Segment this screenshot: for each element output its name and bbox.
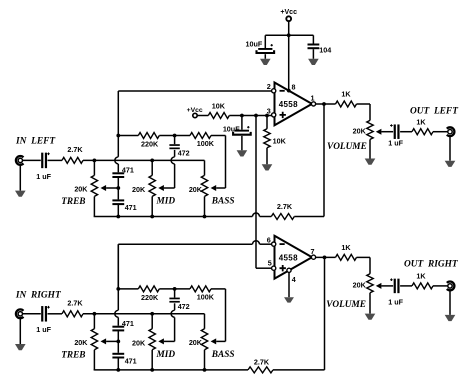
svg-text:20K: 20K xyxy=(353,127,367,136)
junction feedback-220K R xyxy=(116,287,120,291)
svg-text:10K: 10K xyxy=(273,137,287,146)
svg-text:OUT LEFT: OUT LEFT xyxy=(410,107,459,117)
ground at 104 xyxy=(308,59,319,65)
svg-text:20K: 20K xyxy=(74,338,88,347)
op-amp U1A output pin circle xyxy=(311,102,315,106)
junction treble wiper - feedback caps R xyxy=(116,340,120,344)
svg-text:2.7K: 2.7K xyxy=(254,357,270,366)
connector J-IN-L (RCA input jack) xyxy=(16,156,24,165)
resistor 2.7K input R xyxy=(62,311,83,317)
capacitor 471 upper R xyxy=(112,326,124,328)
svg-text:2.7K: 2.7K xyxy=(67,145,83,154)
wire 2.7K to riser L xyxy=(294,216,324,218)
svg-text:20K: 20K xyxy=(132,185,146,194)
potentiometer 20K MID R xyxy=(151,314,153,329)
capacitor 472 R xyxy=(174,289,176,298)
junction pin 8 xyxy=(287,89,291,93)
svg-text:TREB: TREB xyxy=(61,197,85,207)
wire 1K to volume pot L xyxy=(357,103,371,105)
svg-text:1K: 1K xyxy=(341,90,351,99)
op-amp U1A plus sign xyxy=(280,112,286,118)
junction input-treble L xyxy=(93,159,97,163)
svg-text:100K: 100K xyxy=(197,293,215,302)
svg-text:472: 472 xyxy=(178,302,190,311)
mid wiper arrow R xyxy=(158,338,164,344)
wire 472 to mid wiper, hop over input wire R xyxy=(174,303,176,310)
svg-text:104: 104 xyxy=(319,46,331,55)
potentiometer 20K TREB L xyxy=(93,160,95,175)
svg-text:471: 471 xyxy=(122,166,134,175)
terminal +Vcc bias xyxy=(193,113,197,117)
capacitor 104 supply xyxy=(312,35,314,43)
ground at output jack R xyxy=(445,315,456,321)
junction mid bottom R xyxy=(150,368,154,372)
wire pin6 to feedback network left (with hop over bias line) xyxy=(118,243,252,245)
svg-text:1 uF: 1 uF xyxy=(388,139,403,148)
op-amp U1B minus sign xyxy=(280,243,285,245)
wire 1K to output jack L xyxy=(433,131,448,133)
corner pin6 wire down to 220K row right channel xyxy=(117,244,119,289)
op-amp U1B 4558 triangle xyxy=(275,236,313,279)
svg-text:20K: 20K xyxy=(189,185,203,194)
svg-text:8: 8 xyxy=(292,82,296,91)
svg-text:VOLUME: VOLUME xyxy=(326,300,366,310)
ground at volume pot L xyxy=(365,159,376,165)
svg-text:220K: 220K xyxy=(141,293,159,302)
junction input-mid R xyxy=(150,312,154,316)
junction output-feedback riser L xyxy=(322,102,326,106)
junction bass bottom L xyxy=(203,215,207,219)
wire +Vcc down to pin 8 xyxy=(288,21,290,90)
svg-text:2.7K: 2.7K xyxy=(67,298,83,307)
wire 220K to 472 node L xyxy=(159,135,190,137)
svg-text:10K: 10K xyxy=(212,102,226,111)
Vcc decoupling rail xyxy=(265,34,313,36)
wire 1K to volume pot R xyxy=(357,256,371,258)
wire op-amp output R xyxy=(316,256,336,258)
treble wiper arrow R xyxy=(101,338,107,344)
svg-text:5: 5 xyxy=(268,259,272,268)
capacitor 10uF bias xyxy=(241,116,243,130)
wire feedback to 471 cap L xyxy=(117,164,119,172)
bias line down to pin 5 xyxy=(255,116,257,269)
svg-text:471: 471 xyxy=(122,319,134,328)
bass wiper feed from 100K L xyxy=(225,136,227,189)
wire feedback to 471 cap R xyxy=(117,317,119,325)
wire coupling cap R to 2.7K xyxy=(48,313,63,315)
connector J-OUT-L (RCA output jack) xyxy=(447,127,455,136)
wire 10K bias to pin 3 xyxy=(229,115,271,117)
svg-text:1K: 1K xyxy=(341,243,351,252)
junction treble wiper - feedback caps L xyxy=(116,186,120,190)
capacitor 1 uF output L xyxy=(394,124,396,139)
capacitor 471 upper L xyxy=(112,172,124,174)
ground at output jack L xyxy=(445,161,456,167)
resistor 10K bias xyxy=(208,113,229,119)
wire 220K to 472 node R xyxy=(159,288,190,290)
svg-text:4558: 4558 xyxy=(279,253,298,262)
wire input node L (treble top to mid top to bass top) xyxy=(83,159,205,161)
resistor 1K output jack R xyxy=(412,283,433,289)
svg-text:4558: 4558 xyxy=(279,100,298,109)
wire 471 lower to bottom wire L xyxy=(117,205,119,217)
feedback vertical line upper R xyxy=(117,289,119,310)
svg-text:20K: 20K xyxy=(132,338,146,347)
svg-text:20K: 20K xyxy=(74,185,88,194)
svg-text:10uF: 10uF xyxy=(223,124,240,133)
junction input-treble R xyxy=(93,312,97,316)
bass wiper arrow L xyxy=(211,185,217,191)
feedback wire from op-amp inverting input L xyxy=(117,91,119,136)
wire 10uF bias to ground xyxy=(241,136,243,150)
junction feedback caps - bottom wire L xyxy=(116,215,120,219)
op-amp U1A non-inverting pin circle xyxy=(272,113,276,117)
wire 100K to bass feed corner R xyxy=(211,288,226,290)
treble wiper arrow L xyxy=(101,185,107,191)
terminal +Vcc supply xyxy=(286,16,291,21)
junction bias - 10uF xyxy=(240,114,244,118)
wire hop to 2.7K feedback L xyxy=(260,216,272,218)
op-amp U1B inverting input pin circle xyxy=(272,242,276,246)
wire pin 4 to ground xyxy=(288,272,290,297)
resistor 10K bias to ground xyxy=(266,116,268,129)
op-amp U1B non-inverting pin circle xyxy=(272,266,276,270)
ground at 10uF bias xyxy=(237,150,248,156)
wire input jack L ground lead xyxy=(19,165,21,191)
capacitor 472 L xyxy=(174,136,176,145)
svg-text:20K: 20K xyxy=(189,338,203,347)
op-amp U1B pin 4 circle xyxy=(287,268,291,272)
wire hop over input wire L xyxy=(115,157,118,164)
svg-text:+Vcc: +Vcc xyxy=(187,107,203,114)
feedback riser R xyxy=(324,257,326,370)
svg-text:1 uF: 1 uF xyxy=(388,298,403,307)
wire coupling cap L to 2.7K xyxy=(48,159,63,161)
wire pin2 to feedback network left xyxy=(118,90,271,92)
potentiometer 20K TREB R xyxy=(93,314,95,329)
resistor 1K output R xyxy=(336,254,357,260)
feedback riser L xyxy=(323,104,325,217)
wire hop over bias line L xyxy=(252,213,259,216)
resistor 100K L xyxy=(190,133,211,139)
svg-text:471: 471 xyxy=(125,203,137,212)
junction bias - bias line down xyxy=(254,114,258,118)
svg-text:+Vcc: +Vcc xyxy=(280,9,297,16)
ground at pin 4 xyxy=(284,297,294,302)
resistor 1K output jack L xyxy=(412,129,433,135)
resistor 220K R xyxy=(138,286,159,292)
ground at 10uF supply xyxy=(260,59,271,65)
svg-text:1K: 1K xyxy=(416,117,426,126)
junction bass bottom R xyxy=(203,368,207,372)
junction bias - 10K to ground xyxy=(265,114,269,118)
volume wiper arrow R xyxy=(376,283,382,289)
svg-text:1 uF: 1 uF xyxy=(36,325,51,334)
mid wiper arrow L xyxy=(158,185,164,191)
capacitor 1 uF input coupling L xyxy=(41,153,43,169)
capacitor 1 uF output R xyxy=(394,279,396,294)
resistor 100K R xyxy=(190,286,211,292)
svg-text:1 uF: 1 uF xyxy=(36,172,51,181)
junction input-mid L xyxy=(150,159,154,163)
junction feedback caps - bottom wire R xyxy=(116,368,120,372)
capacitor 10uF supply xyxy=(264,35,266,48)
wire 10uF supply to ground xyxy=(264,54,266,59)
svg-text:6: 6 xyxy=(267,235,271,244)
wire output cap to 1K L xyxy=(400,131,412,133)
potentiometer 20K MID L xyxy=(151,160,153,175)
wire hop over input wire R xyxy=(115,310,118,317)
wire output jack ground R xyxy=(449,290,451,315)
wire +Vcc to 10K bias xyxy=(197,115,208,117)
potentiometer 20K BASS R xyxy=(204,314,206,329)
svg-text:BASS: BASS xyxy=(211,350,235,360)
bass wiper feed from 100K R xyxy=(225,289,227,342)
volume wiper arrow L xyxy=(376,129,382,135)
junction mid bottom L xyxy=(150,215,154,219)
wire 1K to output jack R xyxy=(433,285,448,287)
svg-text:7: 7 xyxy=(311,247,315,256)
potentiometer 20K VOLUME L xyxy=(369,104,371,120)
junction Vcc rail xyxy=(287,33,291,37)
op-amp U1B output pin circle xyxy=(311,255,315,259)
resistor 2.7K feedback L xyxy=(271,214,294,220)
wire 100K to bass feed corner L xyxy=(211,135,226,137)
svg-text:MID: MID xyxy=(156,350,176,360)
resistor 2.7K feedback R xyxy=(248,367,273,373)
wire output jack ground L xyxy=(449,136,451,161)
junction output-feedback riser R xyxy=(323,256,327,260)
svg-text:10uF: 10uF xyxy=(246,39,263,48)
ground at 10K vertical xyxy=(262,164,273,170)
capacitor 1 uF input coupling R xyxy=(41,306,43,322)
op-amp U1A 4558 triangle xyxy=(275,83,313,126)
wire 472 to mid wiper, hop over input wire L xyxy=(174,150,176,157)
op-amp U1A inverting input pin circle xyxy=(272,89,276,93)
feedback vertical line upper L xyxy=(117,136,119,157)
ground at input jack R xyxy=(15,344,26,350)
connector J-IN-R (RCA input jack) xyxy=(16,309,24,318)
svg-text:1: 1 xyxy=(311,94,315,103)
bass wiper arrow R xyxy=(211,338,217,344)
svg-text:MID: MID xyxy=(156,197,176,207)
wire 2.7K to riser R xyxy=(273,369,325,371)
resistor 1K output L xyxy=(336,101,357,107)
wire 10K vertical to ground xyxy=(266,148,268,165)
wire input jack R ground lead xyxy=(19,318,21,344)
svg-text:IN RIGHT: IN RIGHT xyxy=(15,291,62,301)
wire 471 lower to bottom wire R xyxy=(117,358,119,370)
svg-text:4: 4 xyxy=(292,275,296,284)
capacitor 471 lower L xyxy=(112,199,124,201)
wire input jack L to coupling cap xyxy=(23,159,41,161)
ground at volume pot R xyxy=(365,314,376,320)
wire input node R (treble top to mid top to bass top) xyxy=(83,313,205,315)
svg-text:472: 472 xyxy=(178,149,190,158)
junction feedback-220K L xyxy=(116,134,120,138)
connector J-OUT-R (RCA output jack) xyxy=(447,281,455,290)
svg-text:1K: 1K xyxy=(416,272,426,281)
wire input jack R to coupling cap xyxy=(23,313,41,315)
bottom tone wire R xyxy=(93,369,96,371)
op-amp U1A minus sign xyxy=(280,90,285,92)
potentiometer 20K BASS L xyxy=(204,160,206,175)
resistor 220K L xyxy=(138,133,159,139)
capacitor 471 lower R xyxy=(112,353,124,355)
svg-text:IN LEFT: IN LEFT xyxy=(15,136,56,146)
potentiometer 20K VOLUME R xyxy=(369,257,371,273)
ground at input jack L xyxy=(15,191,26,197)
wire 471 upper to wiper junction L xyxy=(117,178,119,200)
junction 472 node L xyxy=(173,134,177,138)
svg-text:2: 2 xyxy=(267,82,271,91)
svg-text:100K: 100K xyxy=(197,139,215,148)
op-amp U1B plus sign xyxy=(280,265,286,271)
wire output cap to 1K R xyxy=(400,285,412,287)
svg-text:471: 471 xyxy=(125,356,137,365)
svg-text:220K: 220K xyxy=(141,140,159,149)
wire 471 upper to wiper junction R xyxy=(117,331,119,353)
resistor 2.7K input L xyxy=(62,157,83,163)
wire 104 to ground xyxy=(312,49,314,59)
svg-text:2.7K: 2.7K xyxy=(277,202,293,211)
svg-text:TREB: TREB xyxy=(61,351,85,361)
feedback wire from op-amp inverting input R xyxy=(117,244,119,289)
svg-text:VOLUME: VOLUME xyxy=(327,142,367,152)
junction 472 node R xyxy=(173,287,177,291)
svg-text:BASS: BASS xyxy=(211,197,235,207)
bottom tone wire L xyxy=(93,216,96,218)
svg-text:OUT RIGHT: OUT RIGHT xyxy=(404,260,459,270)
svg-text:20K: 20K xyxy=(353,281,367,290)
wire op-amp output L xyxy=(316,103,336,105)
